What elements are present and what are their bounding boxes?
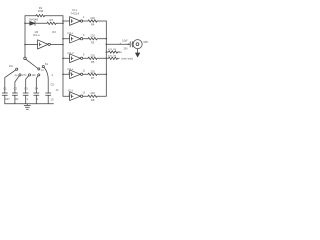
svg-text:R7: R7 [91, 76, 95, 80]
svg-text:1: 1 [36, 97, 38, 101]
node C [62, 23, 64, 25]
resistor R5 [88, 37, 97, 40]
node D [62, 44, 64, 46]
svg-text:47n: 47n [22, 73, 27, 77]
resistor R7 [88, 73, 97, 76]
svg-text:220: 220 [90, 16, 95, 20]
node K [62, 38, 64, 40]
node N [128, 44, 130, 46]
node G [106, 51, 108, 53]
svg-text:IC1-f: IC1-f [68, 90, 74, 93]
node I [106, 74, 108, 76]
svg-text:1N4148: 1N4148 [29, 18, 39, 22]
node H [106, 58, 108, 60]
svg-text:10µF: 10µF [122, 39, 128, 42]
wire top feedback row [25, 15, 63, 17]
svg-text:IC1-e: IC1-e [67, 68, 74, 71]
svg-text:6: 6 [83, 34, 85, 37]
svg-text:R3: R3 [52, 30, 56, 34]
ground [24, 104, 30, 109]
svg-text:R8: R8 [91, 98, 95, 102]
svg-text:(see text): (see text) [121, 56, 133, 60]
node L [62, 58, 64, 60]
wire speaker row [106, 43, 130, 45]
resistor R2 [47, 22, 56, 25]
svg-text:220: 220 [90, 91, 95, 95]
node A [24, 23, 26, 25]
op-amp IC1-e buffer [63, 73, 70, 75]
svg-text:R6: R6 [91, 60, 95, 64]
svg-text:1W: 1W [119, 52, 123, 54]
svg-text:10M: 10M [38, 9, 44, 13]
node B [24, 44, 26, 46]
wire ground rail [5, 103, 54, 105]
svg-text:220: 220 [90, 69, 95, 73]
svg-text:.01: .01 [15, 97, 19, 101]
svg-text:25V: 25V [123, 47, 128, 50]
resistor R1 [36, 14, 45, 17]
wire branch C1 [5, 70, 16, 93]
capacitor C1 [2, 93, 7, 95]
svg-text:13: 13 [82, 91, 85, 94]
op-amp IC1-d buffer [63, 57, 70, 59]
capacitor C6 electrolytic [130, 42, 133, 47]
wire mid bus x63 [62, 16, 64, 97]
node J [62, 20, 64, 22]
svg-text:13: 13 [56, 89, 59, 92]
svg-text:1n: 1n [41, 68, 44, 72]
op-amp IC1-f buffer [63, 95, 70, 97]
wire branch C3 [26, 76, 29, 93]
svg-text:11: 11 [82, 70, 85, 73]
op-amp IC1-a oscillator inverter [25, 43, 38, 45]
svg-text:C5: C5 [51, 82, 55, 86]
node F [106, 44, 108, 46]
svg-text:.1: .1 [26, 97, 29, 101]
svg-text:1/6: 1/6 [34, 30, 38, 34]
svg-text:C2: C2 [14, 86, 18, 90]
node M [62, 74, 64, 76]
svg-text:R2: R2 [49, 18, 53, 22]
resistor R6 [88, 57, 97, 60]
capacitor C5 [46, 93, 51, 95]
svg-text:R4: R4 [91, 23, 95, 27]
svg-text:10: 10 [51, 98, 54, 102]
wire branch C5 [44, 67, 48, 93]
wire diode row [25, 22, 63, 24]
wire left bus x25 [24, 16, 26, 58]
svg-text:.047: .047 [4, 97, 10, 101]
op-amp IC1-c buffer [63, 38, 70, 40]
node E [106, 38, 108, 40]
diode D1 [30, 22, 35, 26]
svg-text:10n: 10n [9, 64, 14, 68]
svg-text:IC1-c: IC1-c [68, 32, 75, 35]
svg-text:SPK: SPK [143, 41, 148, 44]
switch S1 pivot [24, 57, 27, 60]
capacitor C3 [23, 93, 28, 95]
junction dots [24, 20, 129, 75]
ground under speaker [137, 49, 139, 53]
svg-text:4: 4 [83, 16, 85, 19]
svg-text:10n: 10n [31, 73, 36, 77]
wire branch C4 [36, 76, 38, 93]
svg-text:220: 220 [90, 34, 95, 38]
resistor R8 [88, 95, 97, 98]
svg-text:3: 3 [69, 19, 71, 22]
svg-text:IC1-d: IC1-d [67, 52, 74, 55]
svg-text:R5: R5 [91, 40, 95, 44]
wire branch C2 [15, 76, 19, 93]
node contact 5 [42, 66, 44, 68]
op-amp IC1-b buffer [63, 20, 70, 22]
capacitor C2 [12, 93, 17, 95]
svg-text:74C14: 74C14 [71, 12, 80, 16]
node contact 1 [16, 68, 18, 70]
svg-text:47Ω 1W: 47Ω 1W [108, 55, 117, 57]
speaker SPKR1 [133, 40, 142, 49]
svg-text:9: 9 [83, 54, 85, 57]
svg-text:8: 8 [69, 56, 71, 59]
svg-text:47Ω 1W: 47Ω 1W [108, 49, 117, 51]
svg-text:5: 5 [69, 36, 71, 39]
svg-text:220: 220 [90, 53, 95, 57]
node contact 3 [28, 74, 30, 76]
wire right bus x106 [105, 21, 107, 96]
svg-text:.1: .1 [51, 73, 54, 77]
node contact 2 [19, 74, 21, 76]
resistor R10 [106, 57, 119, 60]
capacitor C4 [34, 93, 39, 95]
switch S1 wiper [26, 59, 38, 68]
svg-text:C3: C3 [24, 86, 28, 90]
node contact 4 [38, 74, 40, 76]
resistor R4 [88, 20, 97, 23]
resistor R9 [106, 51, 119, 54]
svg-text:S1: S1 [45, 62, 49, 66]
svg-text:.1µ: .1µ [14, 73, 18, 77]
